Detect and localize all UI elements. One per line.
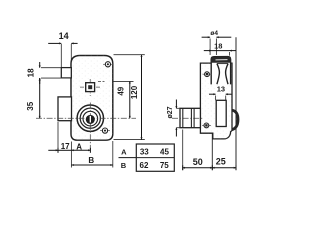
svg-text:25: 25 xyxy=(216,157,226,167)
svg-text:ø4: ø4 xyxy=(210,30,218,37)
svg-text:18: 18 xyxy=(27,68,36,77)
svg-text:17: 17 xyxy=(61,142,70,151)
svg-text:ø27: ø27 xyxy=(167,106,174,118)
svg-text:35: 35 xyxy=(26,101,35,110)
svg-text:B: B xyxy=(121,161,127,170)
svg-text:B: B xyxy=(88,156,94,165)
svg-text:62: 62 xyxy=(140,161,149,170)
svg-text:A: A xyxy=(76,142,82,151)
svg-text:45: 45 xyxy=(160,148,169,157)
svg-text:75: 75 xyxy=(160,161,169,170)
svg-text:50: 50 xyxy=(193,157,203,167)
svg-text:14: 14 xyxy=(59,31,69,41)
svg-text:18: 18 xyxy=(214,42,222,51)
svg-text:33: 33 xyxy=(140,148,149,157)
svg-text:13: 13 xyxy=(217,85,225,94)
svg-text:A: A xyxy=(121,148,127,157)
svg-text:49: 49 xyxy=(116,86,125,95)
svg-text:120: 120 xyxy=(130,85,139,99)
